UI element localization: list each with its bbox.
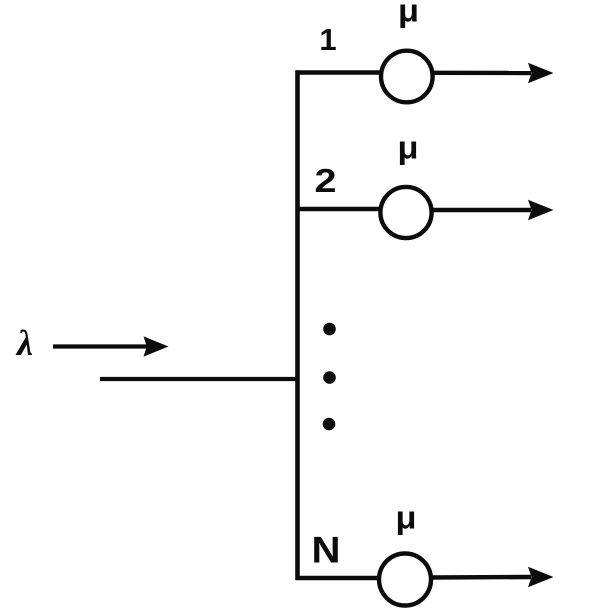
server circle 2 — [380, 187, 431, 238]
svg-text:μ: μ — [398, 130, 419, 166]
wire: splitter vertical bar — [295, 70, 300, 580]
svg-text:2: 2 — [315, 162, 337, 199]
wire: branch 1 right segment — [432, 71, 531, 76]
wire: branch N right segment — [431, 575, 531, 580]
ellipsis dot top — [323, 323, 336, 336]
wire: branch 2 left segment — [296, 207, 382, 211]
server circle N — [379, 554, 431, 606]
server circle 1 — [381, 51, 433, 103]
ellipsis dot middle — [323, 371, 336, 384]
wire: input line into splitter — [100, 377, 297, 381]
arrowhead lambda arrow — [144, 336, 169, 356]
wire: lambda input arrow shaft — [53, 344, 147, 348]
arrowhead branch 2 — [528, 200, 554, 220]
svg-text:μ: μ — [396, 500, 417, 536]
svg-text:1: 1 — [319, 22, 336, 57]
wire: branch N left segment — [296, 576, 381, 580]
svg-text:μ: μ — [398, 0, 419, 29]
arrowhead branch N — [528, 567, 554, 587]
svg-text:λ: λ — [15, 323, 33, 363]
arrowhead branch 1 — [528, 63, 554, 83]
svg-text:N: N — [312, 530, 341, 571]
wire: branch 1 left segment — [296, 70, 382, 74]
wire: branch 2 right segment — [432, 208, 531, 212]
ellipsis dot bottom — [323, 418, 336, 431]
